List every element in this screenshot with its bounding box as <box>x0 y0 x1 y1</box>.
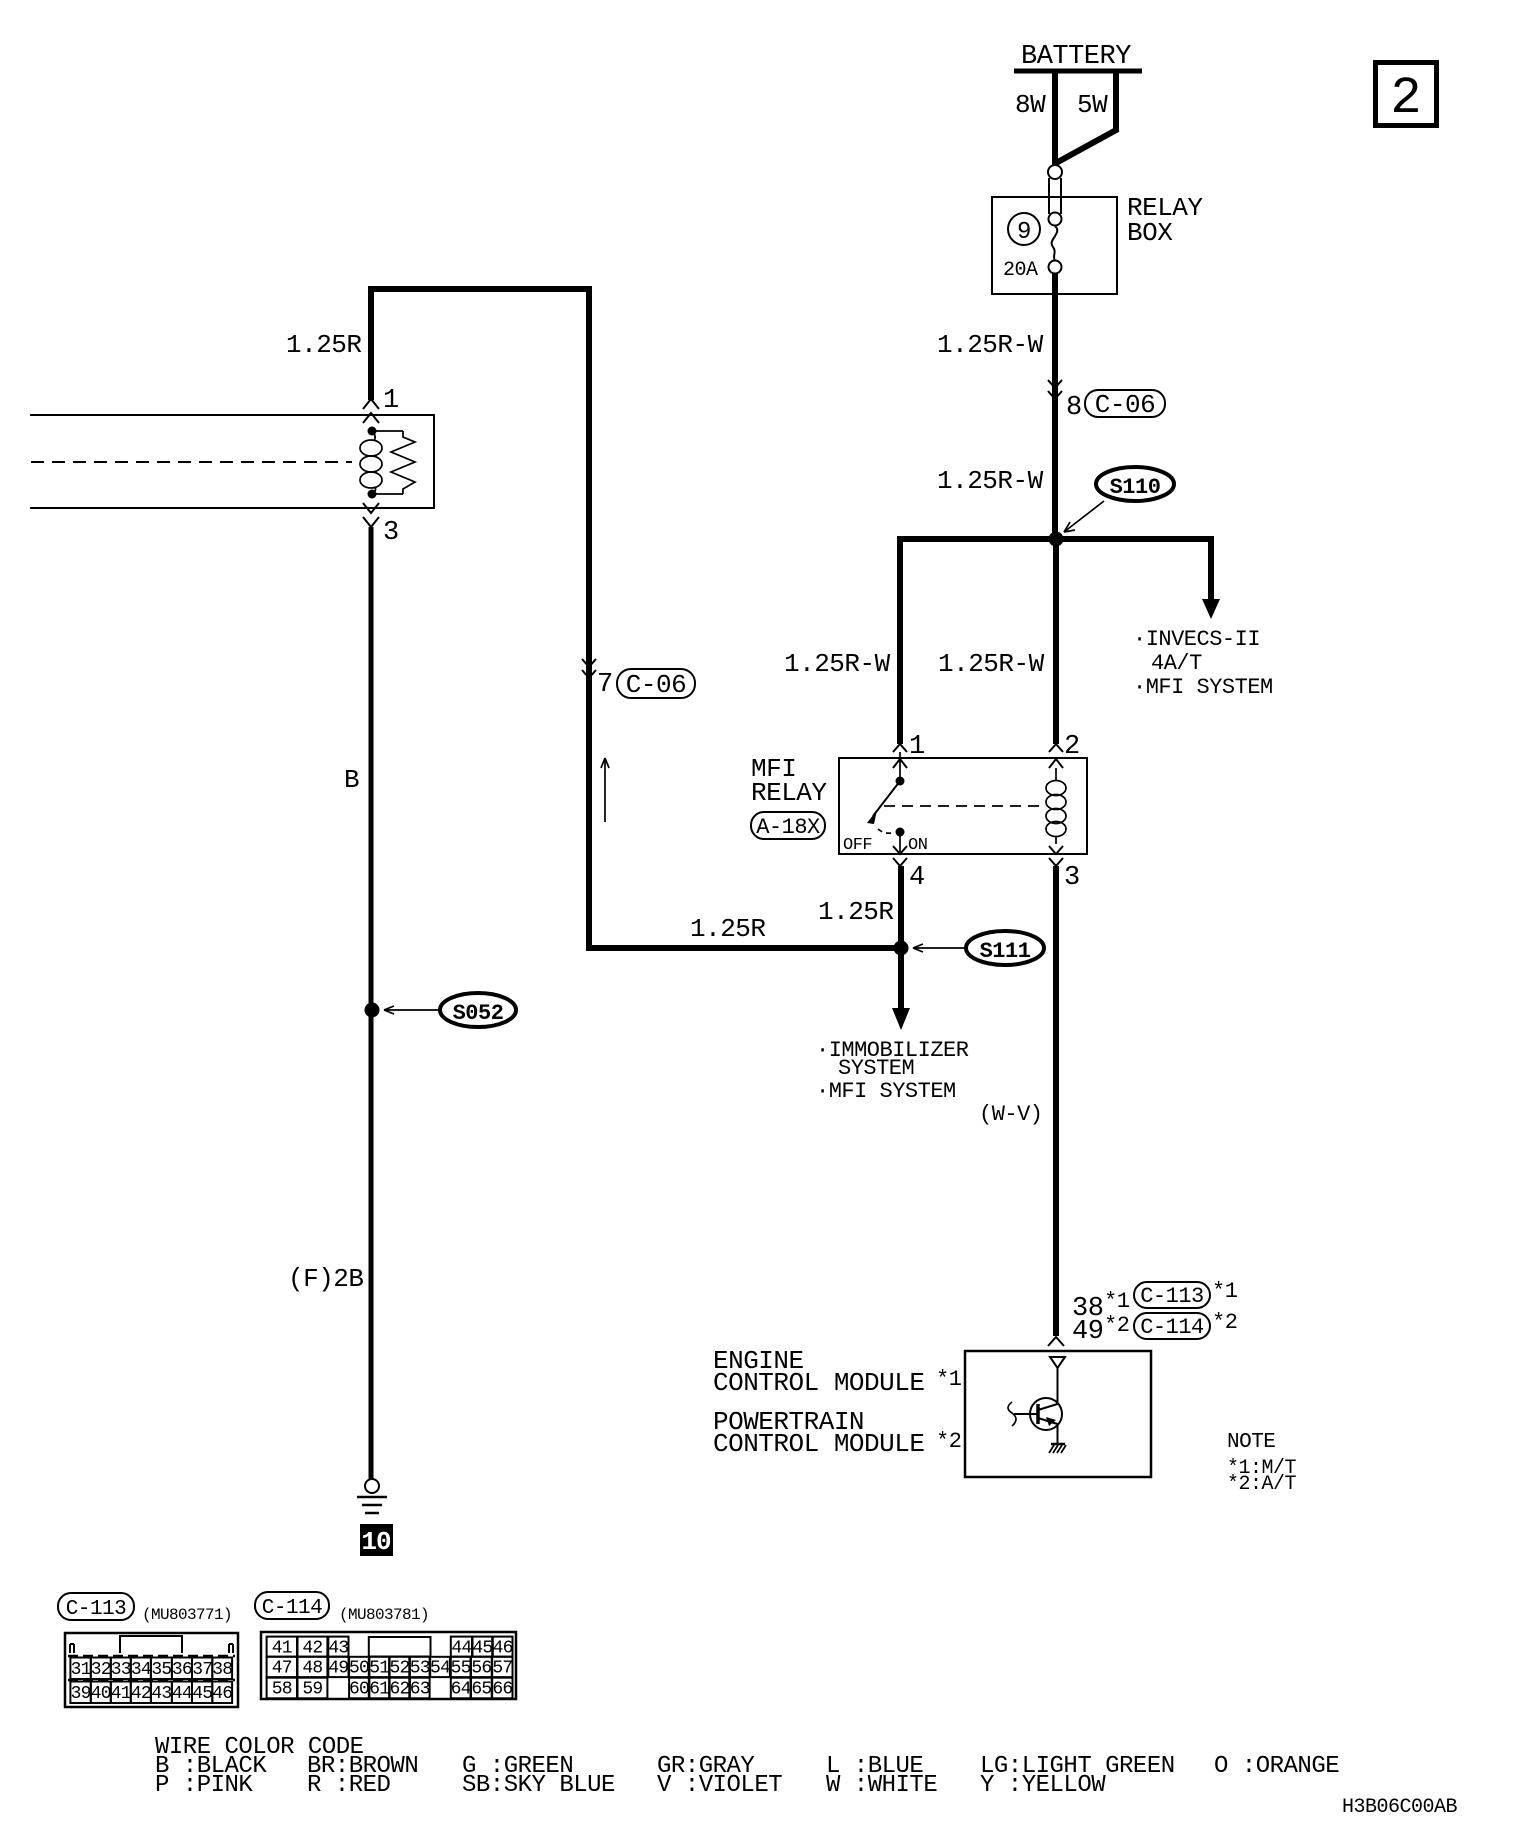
svg-text:44: 44 <box>172 1684 192 1704</box>
svg-text:7: 7 <box>597 670 613 700</box>
svg-text:C-06: C-06 <box>1095 390 1155 420</box>
svg-text:*1: *1 <box>936 1367 962 1392</box>
svg-text:A-18X: A-18X <box>756 815 820 840</box>
svg-text:57: 57 <box>492 1659 512 1679</box>
svg-text:C-114: C-114 <box>1140 1315 1204 1340</box>
svg-text:49: 49 <box>1072 1317 1103 1347</box>
svg-text:65: 65 <box>471 1680 491 1700</box>
svg-text:54: 54 <box>430 1659 450 1679</box>
svg-text:35: 35 <box>151 1660 171 1680</box>
svg-text:32: 32 <box>91 1660 111 1680</box>
svg-text:3: 3 <box>1064 863 1080 893</box>
svg-text:45: 45 <box>192 1684 212 1704</box>
svg-text:20A: 20A <box>1003 259 1038 282</box>
svg-text:47: 47 <box>272 1659 292 1679</box>
svg-text:40: 40 <box>91 1684 111 1704</box>
svg-text:37: 37 <box>192 1660 212 1680</box>
svg-text:34: 34 <box>131 1660 151 1680</box>
svg-text:63: 63 <box>410 1680 430 1700</box>
svg-text:*2: *2 <box>936 1429 961 1454</box>
svg-text:Y :YELLOW: Y :YELLOW <box>980 1772 1106 1799</box>
svg-text:·MFI SYSTEM: ·MFI SYSTEM <box>816 1079 956 1104</box>
svg-text:33: 33 <box>111 1660 131 1680</box>
svg-text:RELAY: RELAY <box>751 778 827 808</box>
svg-text:OFF: OFF <box>843 836 872 855</box>
svg-text:42: 42 <box>302 1638 322 1658</box>
svg-text:4A/T: 4A/T <box>1151 651 1202 676</box>
svg-text:BATTERY: BATTERY <box>1021 42 1131 72</box>
svg-text:S052: S052 <box>453 1001 504 1026</box>
svg-text:31: 31 <box>71 1660 91 1680</box>
svg-text:(F)2B: (F)2B <box>288 1264 364 1294</box>
svg-text:8W: 8W <box>1015 90 1046 120</box>
svg-text:41: 41 <box>272 1638 292 1658</box>
svg-text:SYSTEM: SYSTEM <box>838 1056 914 1081</box>
svg-text:43: 43 <box>151 1684 171 1704</box>
svg-text:46: 46 <box>212 1684 232 1704</box>
svg-text:R :RED: R :RED <box>307 1772 391 1799</box>
svg-text:41: 41 <box>111 1684 131 1704</box>
svg-text:5W: 5W <box>1077 90 1108 120</box>
svg-text:8: 8 <box>1066 393 1082 423</box>
svg-text:52: 52 <box>389 1659 409 1679</box>
svg-text:NOTE: NOTE <box>1227 1431 1275 1454</box>
svg-text:B: B <box>344 765 359 795</box>
svg-text:SB:SKY BLUE: SB:SKY BLUE <box>462 1772 615 1799</box>
svg-text:66: 66 <box>492 1680 512 1700</box>
svg-text:46: 46 <box>493 1638 513 1658</box>
svg-text:S110: S110 <box>1110 475 1161 500</box>
svg-text:P :PINK: P :PINK <box>155 1772 253 1799</box>
svg-text:*2: *2 <box>1104 1313 1129 1338</box>
svg-text:H3B06C00AB: H3B06C00AB <box>1342 1796 1458 1819</box>
svg-text:64: 64 <box>451 1680 471 1700</box>
svg-text:(W-V): (W-V) <box>979 1102 1043 1127</box>
svg-text:50: 50 <box>349 1659 369 1679</box>
svg-text:C-06: C-06 <box>626 670 686 700</box>
svg-text:48: 48 <box>302 1659 322 1679</box>
svg-text:C-113: C-113 <box>66 1598 127 1621</box>
svg-text:61: 61 <box>369 1680 389 1700</box>
svg-text:·INVECS-II: ·INVECS-II <box>1133 627 1260 652</box>
svg-text:10: 10 <box>361 1527 391 1557</box>
svg-text:62: 62 <box>389 1680 409 1700</box>
svg-text:42: 42 <box>131 1684 151 1704</box>
svg-text:1.25R: 1.25R <box>818 897 894 927</box>
svg-text:58: 58 <box>272 1680 292 1700</box>
svg-text:C-114: C-114 <box>262 1597 323 1620</box>
svg-text:43: 43 <box>328 1638 348 1658</box>
svg-text:56: 56 <box>471 1659 491 1679</box>
svg-text:1.25R: 1.25R <box>286 330 362 360</box>
svg-text:1.25R-W: 1.25R-W <box>938 649 1045 679</box>
svg-text:1: 1 <box>909 732 925 762</box>
svg-text:45: 45 <box>472 1638 492 1658</box>
svg-text:CONTROL MODULE: CONTROL MODULE <box>713 1368 924 1398</box>
svg-text:1.25R: 1.25R <box>690 914 766 944</box>
svg-text:O :ORANGE: O :ORANGE <box>1214 1753 1339 1780</box>
svg-text:2: 2 <box>1064 732 1080 762</box>
svg-text:3: 3 <box>383 518 399 548</box>
svg-text:60: 60 <box>349 1680 369 1700</box>
svg-text:W :WHITE: W :WHITE <box>826 1772 937 1799</box>
svg-text:·MFI SYSTEM: ·MFI SYSTEM <box>1133 675 1273 700</box>
svg-text:55: 55 <box>451 1659 471 1679</box>
svg-text:(MU803771): (MU803771) <box>142 1606 232 1624</box>
svg-text:(MU803781): (MU803781) <box>339 1606 429 1624</box>
svg-text:59: 59 <box>302 1680 322 1700</box>
svg-text:9: 9 <box>1017 219 1031 246</box>
svg-text:44: 44 <box>451 1638 471 1658</box>
svg-text:36: 36 <box>172 1660 192 1680</box>
svg-text:49: 49 <box>328 1659 348 1679</box>
svg-text:51: 51 <box>369 1659 389 1679</box>
svg-text:*2:A/T: *2:A/T <box>1227 1473 1297 1496</box>
svg-text:*2: *2 <box>1212 1310 1237 1335</box>
svg-text:S111: S111 <box>980 939 1031 964</box>
svg-text:1.25R-W: 1.25R-W <box>937 330 1044 360</box>
svg-text:39: 39 <box>71 1684 91 1704</box>
svg-text:4: 4 <box>909 863 925 893</box>
svg-text:ON: ON <box>908 836 927 855</box>
svg-text:*1: *1 <box>1104 1289 1130 1314</box>
svg-text:CONTROL MODULE: CONTROL MODULE <box>713 1429 924 1459</box>
svg-text:1.25R-W: 1.25R-W <box>784 649 891 679</box>
svg-text:V :VIOLET: V :VIOLET <box>657 1772 782 1799</box>
svg-text:1.25R-W: 1.25R-W <box>937 466 1044 496</box>
svg-text:53: 53 <box>410 1659 430 1679</box>
svg-text:38: 38 <box>212 1660 232 1680</box>
svg-text:2: 2 <box>1390 69 1421 128</box>
svg-text:C-113: C-113 <box>1140 1284 1204 1309</box>
svg-text:BOX: BOX <box>1127 218 1173 248</box>
svg-text:1: 1 <box>383 386 399 416</box>
svg-text:*1: *1 <box>1212 1279 1238 1304</box>
